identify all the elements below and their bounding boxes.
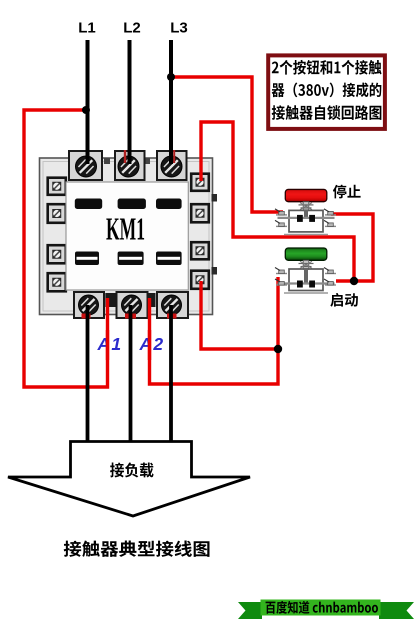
annotation text line1 (272, 60, 382, 75)
svg-text:A1: A1 (97, 334, 123, 354)
banner main (261, 600, 381, 616)
wire over A1 (106, 330, 109, 360)
KM1 inner panel (66, 182, 188, 290)
wire L3 to stop button (171, 77, 283, 212)
svg-text:A2: A2 (139, 334, 165, 354)
svg-text:L3: L3 (170, 20, 188, 37)
annotation text line3 (272, 105, 382, 120)
annotation text line2 (272, 82, 382, 97)
banner text (266, 601, 378, 614)
wire stop button to start button (331, 214, 373, 281)
label 接负载 (110, 463, 154, 478)
KM1 bottom terminal 3 (157, 292, 188, 318)
pushbutton stop (NC) (275, 189, 336, 234)
banner ribbon left tail (238, 602, 262, 619)
KM1 top terminal 2 (115, 151, 145, 180)
wire load 2 (129, 305, 133, 442)
KM1 right aux terminal 1 (191, 174, 209, 191)
annotation box (268, 55, 385, 128)
coil terminal A2 mark (148, 293, 156, 307)
load arrow (8, 442, 250, 517)
KM1 left aux terminal 2 (48, 204, 66, 223)
wire L3 vertical (169, 40, 173, 164)
wire load 1 (86, 305, 90, 442)
pushbutton start (NO) (275, 248, 336, 293)
node L1 junction (82, 106, 90, 114)
KM1 bottom terminal 1 (74, 292, 104, 318)
wire L1 to coil A1 (24, 110, 108, 387)
KM1 main contact bars bottom (75, 252, 99, 266)
KM1 bottom terminal 2 (117, 292, 148, 318)
contactor KM1 body (40, 158, 213, 315)
wire load 3 (169, 305, 173, 442)
wire KM1 aux bottom to junction (201, 281, 278, 349)
KM1 right tabs (212, 194, 218, 202)
KM1 left aux terminal 4 (48, 273, 66, 291)
wire KM1 aux top to button junction (201, 122, 354, 281)
svg-text:KM1: KM1 (106, 211, 145, 247)
wire over A2 (148, 330, 151, 360)
caption 接触器典型接线图 (64, 540, 210, 556)
svg-text:L1: L1 (78, 20, 96, 37)
KM1 left aux terminal 3 (48, 245, 66, 263)
node A2 junction (274, 345, 282, 353)
label 停止 (333, 185, 361, 199)
KM1 right aux terminal 3 (191, 242, 209, 259)
terminal paint marks (124, 150, 126, 163)
KM1 right aux terminal 2 (191, 204, 209, 222)
svg-text:L2: L2 (123, 20, 141, 37)
KM1 left aux terminal 1 (48, 178, 66, 195)
wire L2 vertical (128, 40, 132, 164)
label 启动 (330, 293, 358, 307)
banner ribbon right tail (379, 602, 414, 619)
node L3 junction (167, 73, 175, 81)
wire start button to coil A2 (150, 277, 279, 384)
KM1 top terminal 3 (157, 151, 187, 180)
node start-button junction (350, 277, 358, 285)
KM1 top terminal 1 (69, 151, 102, 180)
coil terminal A1 mark (105, 293, 115, 307)
KM1 right aux terminal 4 (191, 271, 209, 289)
KM1 main contact bars top (75, 199, 102, 210)
wire L1 vertical (86, 40, 90, 164)
